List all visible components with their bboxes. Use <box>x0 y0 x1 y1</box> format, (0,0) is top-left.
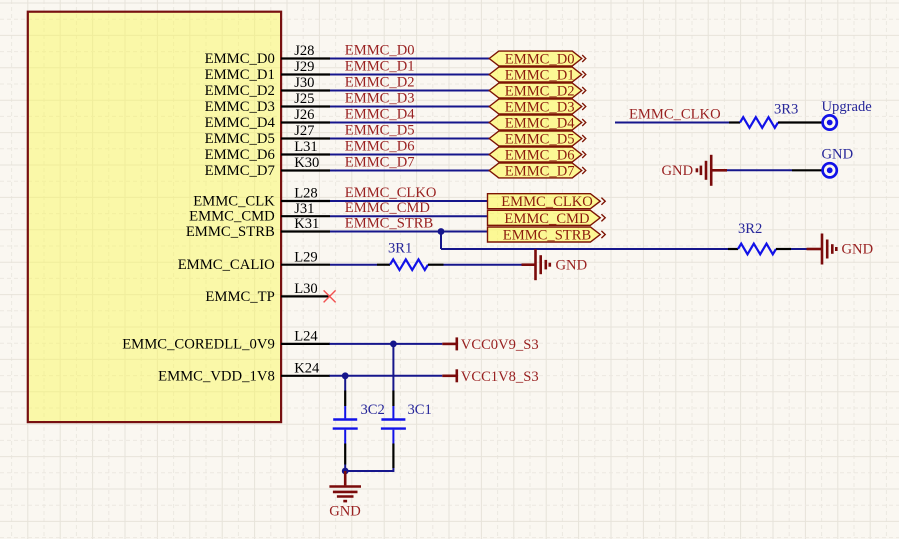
port EMMC_D3 <box>489 99 586 115</box>
net label EMMC_CLKO <box>345 185 437 201</box>
svg-text:J31: J31 <box>294 201 314 217</box>
svg-text:GND: GND <box>556 258 588 274</box>
port EMMC_STRB <box>488 227 606 244</box>
svg-text:EMMC_TP: EMMC_TP <box>205 289 274 305</box>
svg-text:L30: L30 <box>294 281 318 297</box>
port EMMC_CLKO <box>488 194 606 211</box>
pin J30 (EMMC_D2) of U1 <box>205 75 330 99</box>
svg-text:3C2: 3C2 <box>361 402 385 418</box>
wire EMMC_STRB branch to 3R2 <box>441 248 728 250</box>
junction at capacitor grounds <box>342 468 349 475</box>
pin J26 (EMMC_D4) of U1 <box>205 107 330 131</box>
wire net EMMC_D7 <box>330 170 490 172</box>
pin L28 (EMMC_CLK) of U1 <box>193 186 330 210</box>
svg-text:GND: GND <box>822 147 854 163</box>
pin 1 of 3C1 <box>392 391 394 407</box>
svg-text:J29: J29 <box>294 59 314 75</box>
svg-text:EMMC_D0: EMMC_D0 <box>205 51 275 67</box>
wire ground to GND pad <box>727 169 792 171</box>
svg-text:EMMC_D6: EMMC_D6 <box>505 148 575 164</box>
svg-text:J27: J27 <box>294 123 314 139</box>
pin J25 (EMMC_D3) of U1 <box>205 91 330 115</box>
resistor 3R2 <box>728 221 791 255</box>
wire net VCC1V8_S3 (K24 row) <box>330 375 443 377</box>
wire net EMMC_D1 <box>330 74 490 76</box>
wire net EMMC_CMD <box>330 215 488 217</box>
wire 3R3 to Upgrade pad <box>778 121 822 123</box>
svg-text:L28: L28 <box>294 186 318 202</box>
svg-text:EMMC_D7: EMMC_D7 <box>505 164 575 180</box>
svg-text:K30: K30 <box>294 155 319 171</box>
svg-text:EMMC_CMD: EMMC_CMD <box>345 200 430 216</box>
net label EMMC_STRB <box>345 216 434 232</box>
svg-text:J30: J30 <box>294 75 314 91</box>
wire VCC0V9_S3 down to 3C1 <box>392 344 394 391</box>
resistor 3R3 <box>729 102 798 128</box>
port EMMC_D7 <box>489 163 586 179</box>
net label EMMC_D2 <box>345 75 415 91</box>
svg-text:EMMC_D5: EMMC_D5 <box>345 123 415 139</box>
pin J27 (EMMC_D5) of U1 <box>205 123 330 147</box>
wire net EMMC_D4 <box>330 122 490 124</box>
net label EMMC_D4 <box>345 107 415 123</box>
port EMMC_D2 <box>489 83 586 99</box>
pin J28 (EMMC_D0) of U1 <box>205 43 330 67</box>
no-connect X on pin L30 <box>324 290 336 302</box>
svg-text:EMMC_D4: EMMC_D4 <box>345 107 415 123</box>
wire 3C1 bottom to ground junction <box>345 468 393 471</box>
pin J31 (EMMC_CMD) of U1 <box>189 201 330 225</box>
svg-text:GND: GND <box>842 242 874 258</box>
svg-text:EMMC_D3: EMMC_D3 <box>345 91 415 107</box>
svg-text:3R1: 3R1 <box>388 241 412 257</box>
wire net EMMC_D3 <box>330 106 490 108</box>
svg-text:EMMC_D3: EMMC_D3 <box>205 99 275 115</box>
wire EMMC_STRB branch vertical <box>440 232 442 250</box>
svg-text:EMMC_D6: EMMC_D6 <box>205 147 275 163</box>
svg-text:EMMC_D4: EMMC_D4 <box>205 115 276 131</box>
svg-text:EMMC_D1: EMMC_D1 <box>505 68 575 84</box>
svg-text:L31: L31 <box>294 139 318 155</box>
svg-text:EMMC_D5: EMMC_D5 <box>205 131 275 147</box>
wire net EMMC_CLKO <box>330 200 488 202</box>
net label EMMC_D6 <box>345 139 415 155</box>
capacitor 3C2 <box>333 402 385 443</box>
svg-text:EMMC_D3: EMMC_D3 <box>505 100 575 116</box>
wire 3R1 to ground <box>444 264 522 266</box>
svg-text:L24: L24 <box>294 329 318 345</box>
pin K30 (EMMC_D7) of U1 <box>205 155 330 179</box>
svg-text:EMMC_D0: EMMC_D0 <box>505 52 575 68</box>
svg-text:EMMC_COREDLL_0V9: EMMC_COREDLL_0V9 <box>122 336 275 352</box>
svg-text:J25: J25 <box>294 91 314 107</box>
pin L29 (EMMC_CALIO) of U1 <box>178 249 330 273</box>
pin J29 (EMMC_D1) of U1 <box>205 59 330 83</box>
svg-text:EMMC_STRB: EMMC_STRB <box>503 228 592 244</box>
net label EMMC_D3 <box>345 91 415 107</box>
wire net EMMC_CALIO <box>330 264 377 266</box>
svg-text:EMMC_D4: EMMC_D4 <box>505 116 575 132</box>
pin 2 of 3C1 <box>392 444 394 469</box>
wire net EMMC_CLKO stub <box>615 122 729 124</box>
svg-text:GND: GND <box>662 163 694 179</box>
svg-text:EMMC_CMD: EMMC_CMD <box>189 209 275 225</box>
wire net EMMC_D5 <box>330 138 490 140</box>
pin L31 (EMMC_D6) of U1 <box>205 139 330 163</box>
svg-text:EMMC_D7: EMMC_D7 <box>345 155 415 171</box>
wire VCC1V8_S3 down to 3C2 <box>344 376 346 391</box>
wire net VCC0V9_S3 (L24 row) <box>330 343 443 345</box>
svg-text:J26: J26 <box>294 107 314 123</box>
net label EMMC_CMD <box>345 200 430 216</box>
svg-text:EMMC_D7: EMMC_D7 <box>205 163 275 179</box>
junction on VCC0V9_S3 at 3C1 <box>390 341 397 348</box>
pin K31 (EMMC_STRB) of U1 <box>186 216 330 240</box>
net label EMMC_D1 <box>345 59 415 75</box>
wire net EMMC_D0 <box>330 58 490 60</box>
svg-text:EMMC_D2: EMMC_D2 <box>505 84 575 100</box>
pin L24 (EMMC_COREDLL_0V9) of U1 <box>122 329 330 353</box>
net label EMMC_D5 <box>345 123 415 139</box>
net label EMMC_CLKO <box>629 107 721 123</box>
svg-text:K24: K24 <box>294 360 320 376</box>
power port VCC0V9_S3 <box>442 337 538 353</box>
svg-text:3R3: 3R3 <box>774 102 798 118</box>
svg-text:EMMC_D2: EMMC_D2 <box>205 83 275 99</box>
svg-text:Upgrade: Upgrade <box>822 99 872 115</box>
svg-text:EMMC_CALIO: EMMC_CALIO <box>178 257 275 273</box>
svg-text:L29: L29 <box>294 249 318 265</box>
pin of GND pad <box>792 169 822 171</box>
ground GND (left, feeding GND pad) <box>662 155 728 186</box>
svg-text:EMMC_D2: EMMC_D2 <box>345 75 415 91</box>
wire net EMMC_D2 <box>330 90 490 92</box>
svg-text:K31: K31 <box>294 216 319 232</box>
svg-text:3C1: 3C1 <box>408 402 432 418</box>
svg-text:VCC1V8_S3: VCC1V8_S3 <box>461 369 539 385</box>
svg-text:3R2: 3R2 <box>738 221 762 237</box>
svg-text:EMMC_CMD: EMMC_CMD <box>504 211 589 227</box>
resistor 3R1 <box>377 241 444 271</box>
svg-text:EMMC_CLKO: EMMC_CLKO <box>345 185 437 201</box>
capacitor 3C1 <box>381 402 432 443</box>
wire net EMMC_D6 <box>330 154 490 156</box>
junction on EMMC_STRB net <box>438 228 445 235</box>
pad Upgrade (test point) <box>822 99 872 130</box>
port EMMC_D6 <box>489 147 586 163</box>
port EMMC_D1 <box>489 67 586 83</box>
svg-text:J28: J28 <box>294 43 314 59</box>
svg-text:EMMC_D6: EMMC_D6 <box>345 139 415 155</box>
svg-text:EMMC_CLK: EMMC_CLK <box>193 194 275 210</box>
port EMMC_D5 <box>489 131 586 147</box>
svg-text:EMMC_D5: EMMC_D5 <box>505 132 575 148</box>
svg-text:EMMC_D0: EMMC_D0 <box>345 43 415 59</box>
wire net EMMC_STRB <box>330 231 488 233</box>
power port VCC1V8_S3 <box>442 369 538 385</box>
svg-text:EMMC_D1: EMMC_D1 <box>205 67 275 83</box>
pin 2 of 3C2 <box>344 444 346 472</box>
net label EMMC_D0 <box>345 43 415 59</box>
port EMMC_D4 <box>489 115 586 131</box>
pin L30 (EMMC_TP) of U1 <box>205 281 330 305</box>
svg-text:VCC0V9_S3: VCC0V9_S3 <box>461 337 539 353</box>
ground GND (right of 3R1) <box>522 249 588 280</box>
wire 3R2 to ground <box>791 248 807 250</box>
svg-text:EMMC_CLKO: EMMC_CLKO <box>629 107 721 123</box>
pin 1 of 3C2 <box>344 391 346 407</box>
junction on VCC1V8_S3 at 3C2 <box>342 372 349 379</box>
ground GND (right of 3R2) <box>807 234 874 265</box>
svg-text:EMMC_STRB: EMMC_STRB <box>345 216 434 232</box>
svg-text:EMMC_VDD_1V8: EMMC_VDD_1V8 <box>158 368 275 384</box>
IC U1 eMMC controller body <box>28 12 281 422</box>
ground GND (below capacitors) <box>329 471 361 520</box>
port EMMC_CMD <box>488 210 606 227</box>
svg-text:EMMC_STRB: EMMC_STRB <box>186 224 275 240</box>
port EMMC_D0 <box>489 51 586 67</box>
svg-text:GND: GND <box>329 504 361 520</box>
svg-text:EMMC_CLKO: EMMC_CLKO <box>501 194 593 210</box>
pad GND (test point) <box>822 147 854 178</box>
net label EMMC_D7 <box>345 155 415 171</box>
svg-text:EMMC_D1: EMMC_D1 <box>345 59 415 75</box>
pin K24 (EMMC_VDD_1V8) of U1 <box>158 360 330 384</box>
